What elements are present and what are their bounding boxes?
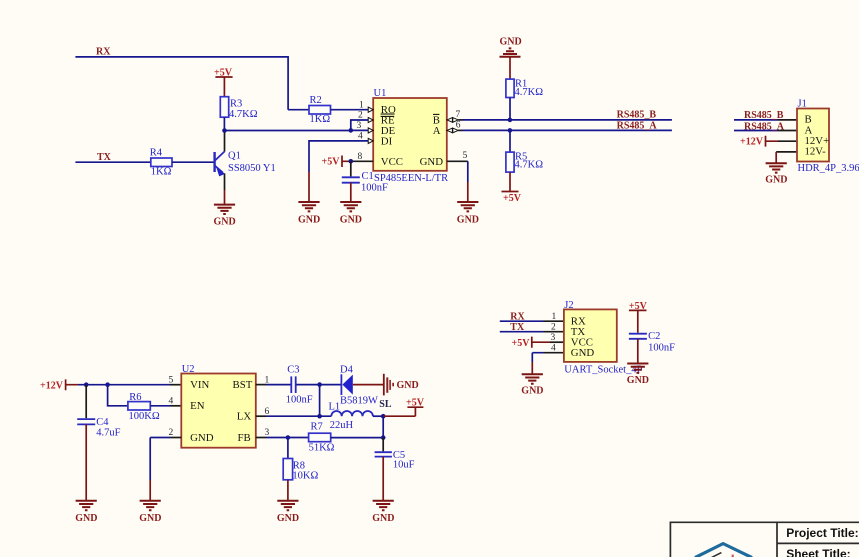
ground (C5) <box>372 501 394 524</box>
resistor R1 <box>506 79 543 120</box>
power flag +12V (J1) <box>740 136 797 148</box>
svg-text:TX: TX <box>97 152 112 163</box>
svg-text:GND: GND <box>372 513 394 524</box>
wire RE tie <box>351 120 368 130</box>
resistor R2 <box>288 95 368 125</box>
svg-text:DI: DI <box>381 136 393 148</box>
resistor R3 <box>220 97 257 131</box>
svg-text:10uF: 10uF <box>393 460 415 471</box>
capacitor C5 <box>375 438 415 501</box>
svg-text:EN: EN <box>190 400 205 412</box>
wire L1 junction down <box>382 416 384 437</box>
node FB junction <box>381 435 386 440</box>
svg-text:R7: R7 <box>311 422 323 433</box>
svg-text:4: 4 <box>169 397 174 407</box>
svg-text:RX: RX <box>96 47 111 58</box>
svg-text:HDR_4P_3.96: HDR_4P_3.96 <box>798 163 859 174</box>
op-amp U1 SP485 transceiver <box>373 88 448 184</box>
svg-text:GND: GND <box>500 37 522 48</box>
connector J1 HDR_4P_3.96 <box>797 99 859 175</box>
pin 6 <box>447 121 463 133</box>
wire +12V rail <box>78 384 170 386</box>
node L1 output junction <box>381 414 386 419</box>
svg-text:4: 4 <box>358 132 363 142</box>
svg-text:R6: R6 <box>129 392 141 403</box>
resistor R4 <box>150 147 214 177</box>
svg-text:FB: FB <box>238 432 251 444</box>
ground flag (top, above R1) <box>500 37 522 80</box>
svg-text:R2: R2 <box>310 95 322 106</box>
svg-text:C1: C1 <box>362 171 374 182</box>
power flag +5V (J2) <box>512 337 564 349</box>
connector J2 UART socket <box>564 300 643 375</box>
node C3/D4 junction <box>317 382 322 387</box>
power flag +5V (C2) <box>629 301 648 333</box>
inductor L1 <box>329 402 384 431</box>
ground (U1 GND pin) <box>457 202 479 225</box>
svg-text:C2: C2 <box>648 331 660 342</box>
svg-text:1KΩ: 1KΩ <box>310 114 331 125</box>
wire TX net <box>75 152 150 163</box>
svg-text:GND: GND <box>420 156 444 168</box>
svg-text:GND: GND <box>277 513 299 524</box>
svg-text:SL: SL <box>379 399 392 410</box>
pin 3 <box>357 121 374 133</box>
ground (Q1 emitter) <box>214 205 236 228</box>
wire BST junction down to LX <box>319 385 321 417</box>
svg-text:TX: TX <box>510 322 525 333</box>
ground flag (D4 / BST rail) <box>384 374 419 396</box>
ground (R8) <box>277 501 299 524</box>
power flag +5V (U1 VCC) <box>322 156 351 168</box>
pin 7 <box>447 110 463 122</box>
svg-text:GND: GND <box>571 347 595 359</box>
capacitor C2 <box>629 331 675 363</box>
svg-text:GND: GND <box>340 214 362 225</box>
svg-text:LX: LX <box>237 411 252 423</box>
transistor Q1 <box>215 131 276 205</box>
svg-text:RS485_B: RS485_B <box>744 110 784 121</box>
svg-text:C3: C3 <box>287 364 299 375</box>
title block text <box>786 526 858 557</box>
svg-text:BST: BST <box>233 379 253 391</box>
svg-text:RS485_B: RS485_B <box>617 110 657 121</box>
wire RS485_B to J1 <box>734 110 797 121</box>
wire to diode <box>320 384 341 386</box>
ground (C4) <box>75 501 97 524</box>
resistor R8 <box>283 438 318 501</box>
svg-text:5: 5 <box>463 151 468 161</box>
wire RS485_B net <box>463 110 672 121</box>
svg-text:Project Title:: Project Title: <box>786 526 858 540</box>
svg-text:GND: GND <box>765 174 787 185</box>
pin 4 <box>358 132 373 144</box>
svg-text:SS8050 Y1: SS8050 Y1 <box>228 163 276 174</box>
node VCC junction <box>349 159 354 164</box>
svg-text:8: 8 <box>358 152 363 162</box>
svg-text:R4: R4 <box>150 147 163 158</box>
svg-text:RX: RX <box>510 312 525 323</box>
svg-text:1KΩ: 1KΩ <box>151 167 172 178</box>
svg-text:GND: GND <box>457 214 479 225</box>
svg-text:+12V: +12V <box>40 380 64 391</box>
capacitor C4 <box>77 385 120 501</box>
svg-text:GND: GND <box>75 513 97 524</box>
ground (U2) <box>139 501 161 524</box>
resistor R6 <box>108 385 182 422</box>
node R6 junction <box>105 382 110 387</box>
power flag +12V (input) <box>40 379 78 391</box>
svg-text:B5819W: B5819W <box>340 396 378 407</box>
pin 8 <box>351 152 373 162</box>
power flag +5V (output) <box>383 397 424 416</box>
pin 2 <box>358 111 373 123</box>
svg-text:A: A <box>433 125 441 137</box>
svg-text:3: 3 <box>551 333 556 343</box>
ground (C2) <box>627 364 649 387</box>
svg-text:GND: GND <box>627 375 649 386</box>
wire RX net <box>75 47 288 110</box>
svg-text:5: 5 <box>169 375 174 385</box>
logo <box>695 544 752 557</box>
svg-text:10KΩ: 10KΩ <box>292 471 318 482</box>
node R8 junction <box>286 435 291 440</box>
wire TX to J2 <box>500 322 564 333</box>
svg-text:+5V: +5V <box>503 193 522 204</box>
svg-text:Q1: Q1 <box>228 151 241 162</box>
power flag +5V (R3 top) <box>214 68 233 97</box>
wire U2 GND pin to ground <box>150 438 181 501</box>
svg-text:2: 2 <box>358 111 363 121</box>
ground (J1) <box>765 163 787 185</box>
pin 1 <box>359 100 373 112</box>
title block frame <box>670 522 859 557</box>
pin 5 <box>447 151 468 161</box>
svg-text:R3: R3 <box>230 98 242 109</box>
capacitor C1 <box>342 161 388 202</box>
svg-text:GND: GND <box>397 380 419 391</box>
svg-text:GND: GND <box>521 386 543 397</box>
svg-text:+5V: +5V <box>512 338 531 349</box>
svg-text:+5V: +5V <box>322 157 341 168</box>
svg-text:12V-: 12V- <box>805 146 827 158</box>
svg-text:51KΩ: 51KΩ <box>309 442 335 453</box>
node LX junction <box>317 414 322 419</box>
ground (C1) <box>340 202 362 225</box>
node RE/DE tie <box>349 128 354 133</box>
node A-R5 junction <box>508 128 513 133</box>
node C4 junction <box>84 382 89 387</box>
svg-text:L1: L1 <box>329 402 341 413</box>
svg-text:22uH: 22uH <box>330 420 354 431</box>
ground (J2) <box>521 374 543 396</box>
svg-text:4.7uF: 4.7uF <box>96 427 120 438</box>
node DE junction at Q1 collector <box>222 128 227 133</box>
power flag +5V (below R5) <box>502 172 522 204</box>
svg-text:4: 4 <box>551 343 556 353</box>
svg-text:4.7KΩ: 4.7KΩ <box>515 87 544 98</box>
svg-text:GND: GND <box>214 216 236 227</box>
svg-text:RS485_A: RS485_A <box>617 121 658 132</box>
wire U1 pin5 to ground <box>467 161 469 202</box>
svg-text:U2: U2 <box>182 364 195 375</box>
svg-text:4.7KΩ: 4.7KΩ <box>229 109 258 120</box>
svg-text:100nF: 100nF <box>286 395 313 406</box>
svg-text:3: 3 <box>357 121 362 131</box>
svg-text:J2: J2 <box>564 300 573 311</box>
svg-text:4.7KΩ: 4.7KΩ <box>515 160 544 171</box>
resistor R5 <box>506 130 543 172</box>
svg-text:Sheet Title:: Sheet Title: <box>786 547 850 557</box>
wire FB <box>256 437 309 439</box>
node B-R1 junction <box>508 118 513 123</box>
svg-text:GND: GND <box>190 432 214 444</box>
svg-text:J1: J1 <box>798 99 807 110</box>
wire RS485_A to J1 <box>734 121 797 132</box>
svg-text:D4: D4 <box>340 364 354 375</box>
resistor R7 <box>309 422 384 454</box>
wire J2 pin4 to ground <box>532 353 564 374</box>
wire J1 pin4 to ground <box>776 152 797 163</box>
svg-text:2: 2 <box>551 322 556 332</box>
wire DI to ground <box>309 141 368 202</box>
svg-text:GND: GND <box>139 513 161 524</box>
diode D4 <box>340 364 384 406</box>
svg-text:1: 1 <box>359 100 364 110</box>
capacitor C3 <box>256 364 320 405</box>
svg-text:1: 1 <box>552 312 557 322</box>
svg-text:+5V: +5V <box>406 397 425 408</box>
svg-text:100nF: 100nF <box>648 343 675 354</box>
ground (DI) <box>298 202 320 225</box>
wire LX <box>256 399 392 416</box>
svg-text:VCC: VCC <box>381 156 403 168</box>
op-amp U2 regulator <box>181 364 256 448</box>
wire RS485_A net <box>463 121 672 132</box>
svg-text:100nF: 100nF <box>361 182 388 193</box>
svg-text:+12V: +12V <box>740 137 764 148</box>
svg-text:U1: U1 <box>374 88 387 99</box>
wire RX to J2 <box>500 312 564 323</box>
svg-text:GND: GND <box>298 214 320 225</box>
svg-text:100KΩ: 100KΩ <box>129 411 160 422</box>
svg-text:RS485_A: RS485_A <box>744 121 785 132</box>
svg-text:VIN: VIN <box>190 379 209 391</box>
wire DE net <box>225 130 351 132</box>
